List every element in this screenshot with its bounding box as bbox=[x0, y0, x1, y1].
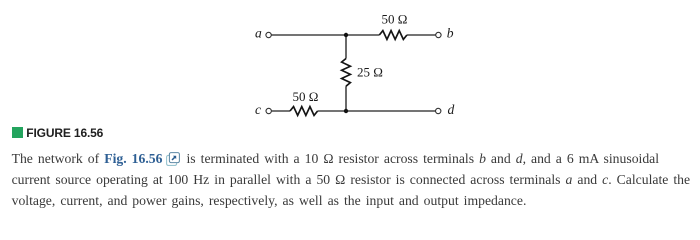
wire: terminal c to resistor 50ohm bottom bbox=[272, 110, 290, 112]
terminal c circle bbox=[266, 108, 271, 113]
wire: bottom node to terminal d bbox=[318, 110, 436, 112]
node junction dot top bbox=[344, 33, 348, 37]
wire: terminal a to top node bbox=[272, 34, 380, 36]
terminal d circle bbox=[436, 108, 441, 113]
svg-text:b: b bbox=[447, 26, 454, 41]
resistor R-top 50ohm zigzag bbox=[379, 31, 407, 40]
svg-text:25 Ω: 25 Ω bbox=[357, 65, 383, 80]
problem paragraph bbox=[12, 148, 700, 211]
svg-text:c: c bbox=[255, 102, 261, 117]
svg-text:50 Ω: 50 Ω bbox=[293, 89, 319, 104]
resistor R-mid 25ohm zigzag (vertical) bbox=[342, 59, 351, 87]
svg-text:50 Ω: 50 Ω bbox=[382, 12, 408, 27]
node junction dot bottom bbox=[344, 109, 348, 113]
svg-text:d: d bbox=[448, 102, 455, 117]
terminal a circle bbox=[266, 32, 271, 37]
svg-text:a: a bbox=[255, 26, 262, 41]
wire: resistor 25ohm to bottom node bbox=[345, 86, 347, 111]
wire: resistor to terminal b bbox=[407, 34, 436, 36]
resistor R-bottom 50ohm zigzag bbox=[290, 107, 318, 116]
figure caption bbox=[11, 0, 13, 1]
terminal b circle bbox=[436, 32, 441, 37]
circuit schematic for Figure 16.56 bbox=[0, 0, 700, 145]
wire: top node down to resistor 25ohm bbox=[345, 35, 347, 59]
